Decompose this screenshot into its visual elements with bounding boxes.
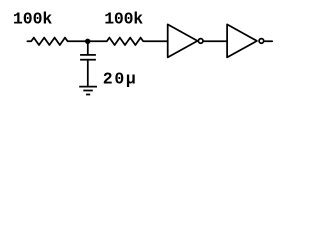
svg-text:100k: 100k bbox=[104, 9, 143, 28]
svg-text:100k: 100k bbox=[13, 9, 52, 28]
svg-text:20µ: 20µ bbox=[103, 69, 136, 88]
